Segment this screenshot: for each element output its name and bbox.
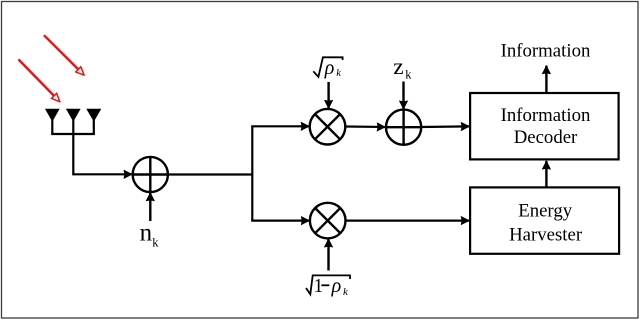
- svg-text:Information: Information: [501, 105, 591, 126]
- svg-text:k: k: [405, 67, 412, 81]
- svg-text:Energy: Energy: [518, 201, 573, 222]
- svg-text:ρ: ρ: [324, 57, 335, 79]
- svg-text:k: k: [152, 235, 159, 249]
- svg-text:Information: Information: [501, 41, 591, 62]
- svg-text:Decoder: Decoder: [514, 127, 578, 148]
- svg-text:1: 1: [314, 276, 324, 297]
- svg-text:k: k: [336, 68, 341, 79]
- svg-text:k: k: [343, 286, 349, 298]
- svg-text:Harvester: Harvester: [509, 224, 583, 245]
- svg-text:n: n: [140, 219, 153, 246]
- svg-text:ρ: ρ: [331, 275, 342, 297]
- svg-text:z: z: [393, 54, 403, 80]
